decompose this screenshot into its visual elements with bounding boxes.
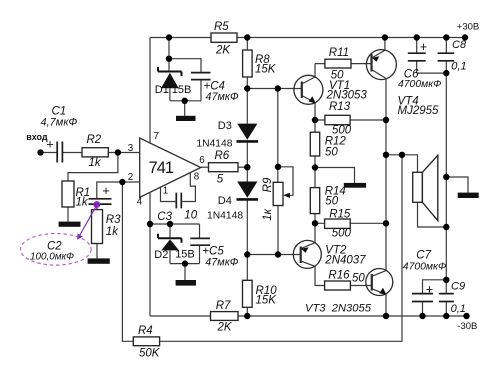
capacitor C1 plates	[57, 142, 62, 163]
node rail VT3 emitter	[383, 313, 389, 319]
svg-text:1к: 1к	[262, 208, 274, 220]
speaker SP1 coil	[413, 172, 423, 202]
svg-text:D3: D3	[218, 120, 232, 132]
node R9 top tap	[275, 85, 281, 91]
wire +15 sub-rail	[150, 37, 211, 39]
capacitor C7 plates	[412, 294, 433, 302]
svg-text:R12: R12	[325, 135, 347, 147]
svg-text:47мкФ: 47мкФ	[205, 257, 239, 269]
svg-text:R9: R9	[262, 177, 274, 192]
svg-text:1N4148: 1N4148	[196, 138, 232, 149]
svg-text:15K: 15K	[256, 294, 278, 306]
wire C7 jog and stubs	[423, 280, 447, 316]
node C6/C8 bottom	[443, 70, 449, 76]
wire R6 to diode node	[238, 166, 247, 168]
transistor VT2 emitter arrow (PNP)	[301, 247, 309, 253]
svg-text:+30В: +30В	[457, 22, 479, 33]
svg-text:5: 5	[217, 174, 224, 186]
wire R7 to rail	[150, 315, 247, 317]
wire -30V bottom rail	[247, 315, 466, 317]
node rail R10	[244, 313, 250, 319]
svg-text:+: +	[420, 40, 427, 54]
svg-text:10: 10	[184, 210, 197, 222]
wire C5 stubs	[199, 224, 201, 264]
svg-text:MJ2955: MJ2955	[398, 105, 440, 117]
node rail VT4 tap	[382, 34, 388, 40]
node rail C8 tap	[443, 34, 449, 40]
wire pin4 negative supply	[149, 192, 151, 316]
svg-text:15В: 15В	[172, 84, 192, 96]
ground G1 (D1/C4)	[176, 116, 196, 121]
resistor R1	[62, 181, 74, 207]
wire R10 drop	[246, 255, 248, 317]
zener diode D1	[158, 67, 182, 88]
capacitor C3 plates	[176, 193, 181, 209]
svg-text:1k: 1k	[89, 157, 102, 169]
ground G6 (speaker/main)	[458, 193, 479, 198]
capacitor C8 plates	[438, 53, 455, 61]
wire VT2 base line	[247, 254, 300, 256]
wire pin7 +15V	[149, 38, 151, 144]
ground G3 (R3)	[88, 258, 110, 263]
node R13 right output	[383, 117, 389, 123]
wire VT2 collector to R16	[301, 261, 325, 286]
capacitor C9 plates	[439, 294, 454, 302]
node D2/C5 ground	[182, 260, 188, 266]
resistor R2	[82, 148, 108, 157]
svg-text:15K: 15K	[255, 63, 277, 75]
node rail C6 tap	[414, 34, 420, 40]
wire D4 anode	[246, 167, 248, 182]
wire VT1 base line	[247, 88, 301, 90]
transistor VT4	[366, 50, 396, 80]
svg-text:вход: вход	[26, 132, 48, 142]
ground G5 (R12/R14 midpoint)	[344, 183, 366, 188]
op-amp U1 741 triangle	[140, 138, 201, 197]
svg-text:R15: R15	[329, 209, 351, 221]
capacitor C6 plates	[408, 53, 426, 61]
wire D1 branch	[169, 38, 201, 116]
svg-text:2N4037: 2N4037	[324, 255, 366, 267]
node R6 / D3 / D4	[244, 164, 250, 170]
wire speaker return	[418, 202, 447, 227]
resistor R14	[310, 188, 319, 214]
node feedback tap	[399, 152, 405, 158]
wire D4 cathode to VT2 base node	[246, 200, 248, 255]
wire R16 to VT3 base	[350, 285, 371, 287]
node rail -30V end	[463, 313, 469, 319]
svg-text:50: 50	[352, 272, 365, 284]
node pin3 / R1	[115, 149, 121, 155]
node R12/R14 midpoint	[312, 164, 318, 170]
transistor VT1 emitter arrow	[309, 96, 316, 103]
node C2/R3 junction (purple)	[93, 201, 100, 208]
diode D4	[237, 182, 259, 200]
svg-text:R16: R16	[328, 270, 350, 282]
svg-text:4,7мкФ: 4,7мкФ	[41, 117, 78, 129]
wire C6 stubs	[417, 38, 447, 74]
node rail R8 tap	[244, 34, 250, 40]
node rail C9	[443, 313, 449, 319]
node R9 bottom	[275, 251, 281, 257]
resistor R7	[211, 312, 239, 321]
ground G4 (D2/C5)	[176, 280, 196, 286]
transistor VT3	[366, 269, 393, 296]
svg-text:C9: C9	[451, 281, 465, 293]
diode D3	[237, 124, 259, 142]
svg-text:7: 7	[154, 131, 159, 142]
node ground tap	[443, 174, 449, 180]
node R9 wiper tie	[275, 164, 281, 170]
wire speaker line	[386, 155, 418, 173]
transistor VT4 emitter arrow (PNP)	[372, 56, 380, 62]
transistor VT3 emitter arrow	[379, 288, 386, 295]
resistor R3	[92, 210, 103, 244]
wire pin6 to R6	[201, 166, 209, 168]
wire R12 stubs	[314, 120, 316, 168]
svg-text:C7: C7	[416, 250, 431, 262]
node output speaker tap	[383, 152, 389, 158]
svg-text:47мкФ: 47мкФ	[206, 91, 240, 103]
svg-text:1: 1	[163, 186, 168, 197]
svg-text:R6: R6	[215, 150, 230, 162]
wire midpoint ground jog	[315, 168, 355, 183]
node R14/R15/VT2 emitter	[312, 220, 318, 226]
svg-text:R11: R11	[329, 47, 349, 59]
node C7/C9 top	[443, 277, 449, 283]
ground G2 (R1)	[59, 222, 81, 227]
resistor R13	[325, 115, 350, 124]
node rail +30V end	[462, 34, 468, 40]
svg-text:0,1: 0,1	[451, 61, 466, 73]
svg-text:+: +	[102, 184, 109, 198]
svg-text:C8: C8	[452, 39, 467, 51]
speaker SP1 cone	[422, 155, 437, 220]
capacitor C4 plates	[191, 73, 211, 80]
node D1/C4 ground	[182, 98, 188, 104]
transistor VT1	[294, 75, 323, 104]
wire VT3 emitter to rail	[372, 289, 386, 316]
svg-text:2N3053: 2N3053	[326, 90, 368, 102]
svg-text:R2: R2	[87, 134, 102, 146]
wire +30V top rail	[237, 37, 465, 39]
resistor R5	[211, 33, 237, 42]
wire VT1 collector to R11	[302, 64, 325, 84]
node D1/C4 top	[166, 56, 172, 62]
svg-text:R13: R13	[329, 101, 351, 113]
svg-text:741: 741	[149, 159, 174, 177]
wire R15 row	[315, 222, 386, 224]
svg-text:500: 500	[332, 227, 352, 239]
svg-text:C2: C2	[47, 240, 62, 252]
node VT1 emitter / R12 / R13	[312, 117, 318, 123]
trimmer R9 wiper arrow	[283, 193, 290, 198]
node R15 right output	[383, 220, 389, 226]
resistor R11	[325, 59, 351, 68]
node VT1 base / D3	[244, 85, 250, 91]
svg-text:15В: 15В	[175, 249, 195, 261]
wire VT1 emitter	[302, 96, 315, 121]
svg-text:1N4148: 1N4148	[207, 211, 243, 222]
zener diode D2	[158, 234, 182, 251]
node pin2 feedback	[119, 179, 125, 185]
wire D2 C5 node	[150, 224, 200, 280]
node pin4 tap	[147, 221, 153, 227]
wire input line	[44, 152, 140, 154]
resistor R15	[325, 219, 351, 228]
resistor R12	[310, 132, 319, 156]
svg-text:6: 6	[199, 155, 205, 166]
wire ground mid line	[445, 73, 447, 280]
node D2 top	[167, 221, 173, 227]
svg-text:D1: D1	[155, 84, 169, 96]
wire VT4 collector output vertical	[372, 50, 387, 120]
node input terminal	[37, 149, 43, 155]
svg-text:100,0мкФ: 100,0мкФ	[30, 252, 74, 263]
node speaker return	[443, 224, 449, 230]
svg-text:4700мкФ: 4700мкФ	[403, 261, 446, 272]
svg-text:R4: R4	[138, 325, 153, 337]
svg-text:+: +	[426, 282, 433, 296]
svg-text:C3: C3	[157, 211, 172, 223]
wire R9 wiper tie	[278, 167, 293, 196]
svg-text:4700мкФ: 4700мкФ	[398, 79, 441, 90]
wire R14 stubs	[314, 168, 316, 224]
node rail D1 tap	[166, 34, 172, 40]
resistor R9 trimmer	[273, 182, 283, 205]
svg-text:+: +	[46, 137, 53, 151]
svg-text:8: 8	[194, 171, 200, 182]
resistor R6	[209, 163, 239, 172]
svg-text:-30В: -30В	[457, 321, 477, 332]
wire output vertical to VT3 collector	[372, 223, 386, 276]
wire feedback bottom to output	[160, 155, 402, 341]
svg-text:R3: R3	[106, 214, 121, 226]
highlight ellipse C2	[21, 234, 92, 266]
wire D3 anode	[246, 89, 248, 124]
svg-text:R5: R5	[214, 21, 229, 33]
svg-text:2: 2	[128, 172, 133, 183]
wire R8 drop	[246, 38, 248, 89]
svg-text:4: 4	[137, 196, 143, 207]
resistor R4	[133, 337, 159, 346]
op-amp U1 pin1 wire and C3 left	[161, 187, 177, 201]
resistor R8	[243, 50, 253, 77]
svg-text:VT3 2N3055: VT3 2N3055	[305, 303, 372, 315]
wire C9 stubs	[445, 280, 447, 316]
wire pin2 net left jog to C2	[97, 182, 140, 258]
svg-text:2K: 2K	[215, 44, 231, 56]
resistor R16	[325, 281, 351, 290]
svg-text:0,1: 0,1	[451, 303, 466, 315]
node rail C7	[419, 313, 425, 319]
capacitor C5 plates	[190, 238, 210, 245]
svg-text:50K: 50K	[139, 348, 161, 360]
svg-text:3: 3	[128, 143, 134, 154]
svg-text:1k: 1k	[106, 226, 119, 238]
svg-text:50: 50	[325, 195, 338, 207]
wire C8 stubs	[445, 38, 447, 74]
resistor R10	[243, 280, 253, 307]
wire D3 to R6 node	[246, 142, 248, 168]
wire pin2 feedback vertical	[122, 182, 133, 341]
wire C4 branch	[169, 59, 201, 101]
wire ground tap to G6	[446, 177, 468, 193]
wire R9 bottom	[277, 206, 279, 255]
wire R9 feed from VT1 base node	[277, 89, 279, 183]
wire VT4 emitter from rail	[384, 38, 386, 51]
svg-text:1k: 1k	[76, 196, 89, 208]
node VT2 base / D4	[244, 251, 250, 257]
highlight arrow C2	[79, 206, 97, 238]
wire VT4 base to R11	[351, 63, 372, 65]
svg-text:2K: 2K	[217, 322, 233, 334]
capacitor C2 plates	[89, 199, 112, 204]
wire VT2 emitter drop	[301, 223, 315, 248]
wire output vertical R13 to R15	[385, 120, 387, 223]
svg-text:D4: D4	[218, 195, 232, 207]
transistor VT2	[293, 240, 321, 268]
svg-text:R7: R7	[216, 300, 231, 312]
svg-text:50: 50	[325, 147, 338, 159]
op-amp U1 pin8 wire staircase	[181, 173, 195, 202]
wire R13 row	[315, 119, 386, 121]
svg-text:D2: D2	[154, 249, 168, 261]
wire R1 jog from pin3 node	[68, 153, 118, 222]
